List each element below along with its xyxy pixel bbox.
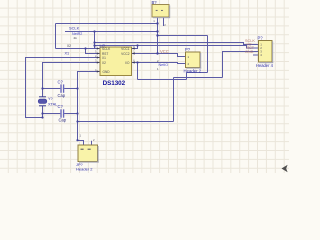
svg-text:Header 2: Header 2	[184, 69, 202, 74]
wire X2 feed	[43, 63, 101, 97]
junction battery pin1 / VCC2 wire	[156, 52, 158, 54]
wire C2 left lead	[43, 113, 61, 115]
cursor arrow bottom right	[282, 165, 288, 172]
wire battery pin2 x163.5	[163, 17, 165, 26]
junction x94.5 / long wire A	[93, 41, 95, 43]
wire VCC1 stub	[132, 46, 138, 49]
wire crystal bottom	[42, 106, 44, 118]
wire header4 pin3 stub	[253, 51, 259, 53]
junction battery pin1 / net stub y31.5	[156, 30, 158, 32]
battery B? box	[152, 5, 170, 19]
capacitor C? (C1) plates	[61, 84, 64, 92]
wire GND right vertical	[173, 78, 175, 122]
wire C1 right lead	[64, 88, 77, 90]
wire y35.5	[158, 35, 208, 37]
header4 pin numbers	[260, 43, 262, 58]
junction X1 link / crystal bottom	[41, 116, 43, 118]
header2 P? box	[186, 52, 202, 69]
IC U? pin numbers	[95, 45, 135, 72]
wire y72.5	[187, 72, 208, 74]
svg-text:X1: X1	[102, 56, 106, 60]
junction crystal bottom / C2 wire	[41, 112, 43, 114]
svg-text:VCC1: VCC1	[121, 47, 130, 51]
wire header2 pin1 stub	[179, 56, 186, 58]
svg-text:X2: X2	[67, 44, 71, 48]
IC U? pin arrows	[97, 47, 135, 72]
wire header2 pin2 stub	[179, 63, 186, 65]
svg-text:NetIO: NetIO	[159, 63, 169, 67]
junction GND vertical / C1 wire	[76, 87, 78, 89]
header2 pin numbers	[188, 55, 190, 66]
junction GND vertical / GND bottom run	[76, 120, 78, 122]
svg-text:2k: 2k	[74, 36, 78, 40]
wire net stub y31.5	[65, 31, 158, 33]
svg-text:B?: B?	[152, 0, 158, 5]
wire IO down x137.5	[137, 63, 139, 80]
junction VCC1 stub / long wire B	[136, 44, 138, 46]
wire x186.5	[186, 73, 188, 80]
svg-text:VCC2: VCC2	[121, 52, 130, 56]
wire header4 pin4 stub	[253, 54, 259, 56]
wire header4 pin1 stub	[253, 44, 259, 46]
wire vertical x94.5	[94, 32, 96, 49]
wire bottom header pin2 stub	[91, 141, 93, 145]
junction x94.5 / long wire B	[93, 44, 95, 46]
wire header4 pin2 stub	[253, 47, 259, 49]
wire VCC1 top run y23.5	[56, 23, 158, 25]
junction crystal top / C1 wire	[41, 87, 43, 89]
bottom header JP? box	[78, 145, 99, 163]
svg-text:Header 2: Header 2	[76, 166, 93, 171]
wire X1 feed	[26, 58, 101, 118]
IC U? DS1302 body	[100, 47, 132, 76]
svg-text:C?: C?	[58, 104, 64, 109]
svg-text:Y?: Y?	[48, 97, 53, 101]
svg-text:SCLK: SCLK	[69, 25, 80, 30]
svg-text:Cap: Cap	[59, 118, 67, 123]
capacitor C? (C2) plates	[61, 109, 64, 117]
wire battery neg vertical	[207, 36, 209, 73]
wire long A y42.5	[95, 43, 254, 45]
crystal Y?	[38, 97, 46, 106]
wire header4 pin3 net	[223, 52, 254, 78]
junction GND vertical / JP pin1 elbow	[76, 139, 78, 141]
svg-text:X1: X1	[65, 51, 70, 55]
svg-text:I/O: I/O	[125, 61, 130, 65]
svg-text:U?: U?	[100, 43, 106, 48]
junction battery pin1 / wire y35.5	[156, 34, 158, 36]
bottom header pin numbers at stubs	[80, 134, 96, 143]
svg-text:VCC: VCC	[160, 49, 169, 54]
wire y79.5	[138, 79, 187, 81]
wire C2 right lead	[64, 113, 77, 115]
wire VCC2 to header2	[132, 54, 186, 57]
svg-text:P?: P?	[258, 35, 264, 40]
junction x94.5 / net stub y31.5	[93, 30, 95, 32]
junction GND vertical / C2 wire	[76, 112, 78, 114]
wire IO run	[132, 63, 186, 64]
svg-text:GND: GND	[103, 70, 111, 74]
svg-text:X2: X2	[102, 61, 106, 65]
svg-text:Cap: Cap	[58, 93, 66, 98]
svg-text:Header 4: Header 4	[256, 63, 274, 68]
IC U? pin names	[102, 47, 130, 74]
wire vertical x55.5	[55, 24, 57, 49]
wire RST drop x85.5	[86, 49, 101, 54]
svg-text:C?: C?	[58, 80, 64, 85]
wire long B y45.5	[95, 46, 254, 49]
junction I/O pin branch	[136, 61, 138, 63]
battery B? marks	[156, 9, 163, 11]
junction x85.5 / SCLK feed	[84, 47, 86, 49]
bottom header pin numbers inside	[81, 148, 91, 150]
wire C1 left lead	[43, 88, 61, 90]
wire GND bottom run	[78, 121, 174, 123]
junction battery pin1 / VCC1 top run	[156, 22, 158, 24]
svg-text:P?: P?	[185, 47, 191, 52]
svg-text:DS1302: DS1302	[103, 80, 126, 87]
wire battery pin1 x157.5	[157, 17, 159, 54]
wire y77.5 run	[174, 77, 223, 79]
wire GND pin run	[78, 72, 101, 146]
header4 P? box	[259, 41, 274, 64]
svg-text:GND: GND	[245, 50, 254, 54]
wire SCLK feed y48.5	[56, 48, 101, 50]
